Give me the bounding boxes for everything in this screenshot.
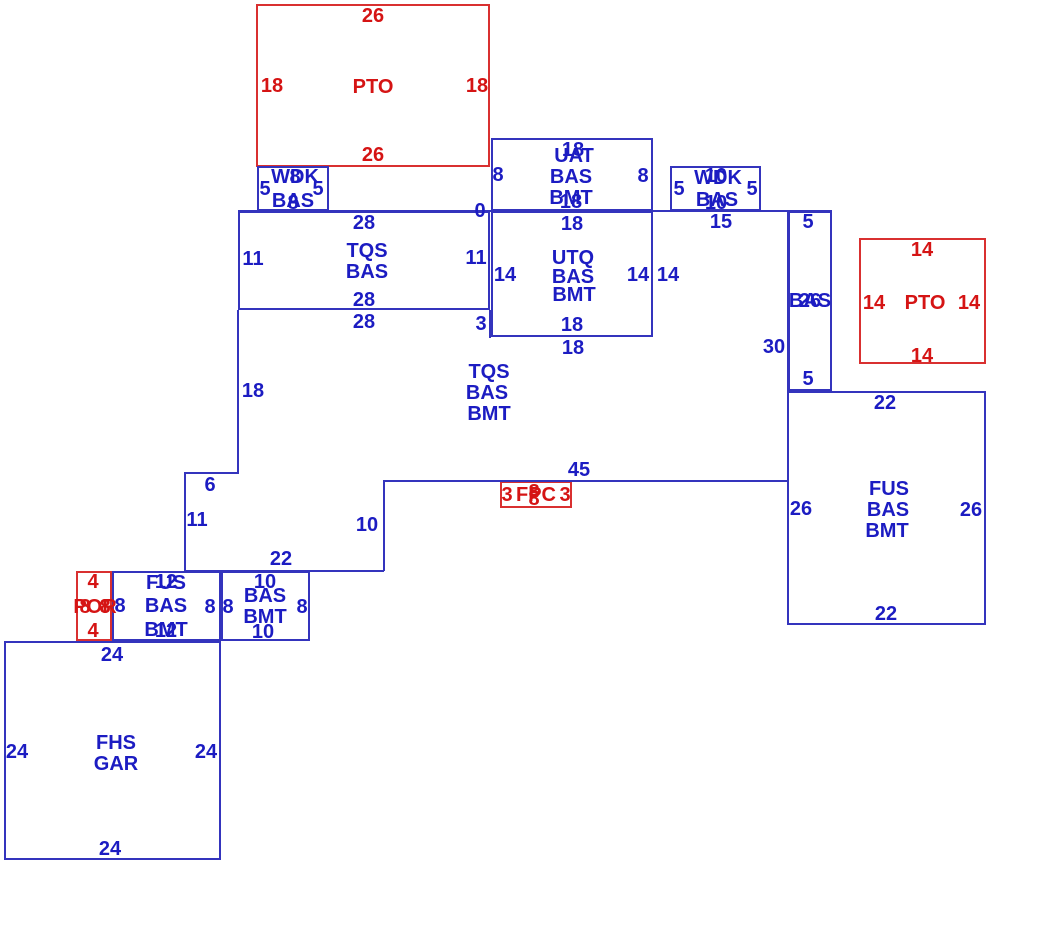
label 4: [87, 572, 98, 592]
label 10: [252, 622, 274, 642]
label 28: [353, 213, 375, 233]
label 24: [195, 742, 217, 762]
label 8: [637, 166, 648, 186]
label 6: [204, 475, 215, 495]
label UTQ: [552, 248, 594, 268]
label 18: [561, 214, 583, 234]
wire TQS-BMT step 6ft: [184, 472, 239, 474]
label 10: [356, 515, 378, 535]
label 0: [474, 201, 485, 221]
label 12: [155, 572, 177, 592]
label 10: [254, 572, 276, 592]
label BMT: [243, 607, 286, 627]
label FHS: [96, 733, 136, 753]
label 3: [475, 314, 486, 334]
label 28: [353, 290, 375, 310]
area UAT outline: [491, 138, 653, 211]
label 24: [101, 645, 123, 665]
label 5: [312, 179, 323, 199]
label BMT: [467, 404, 510, 424]
area TQS outline: [238, 211, 490, 310]
label 11: [242, 249, 263, 269]
label FUS: [146, 573, 186, 593]
label TQS: [468, 362, 509, 382]
label 10: [705, 193, 727, 213]
label 5: [746, 179, 757, 199]
label UAT: [554, 146, 594, 166]
label 5: [673, 179, 684, 199]
label 18: [561, 315, 583, 335]
wire TQS-BMT bottom 45ft: [383, 480, 789, 482]
label BAS: [244, 586, 286, 606]
label POR: [73, 597, 116, 617]
area BAS-strip outline: [788, 211, 832, 391]
deck WDK-2 outline: [670, 166, 761, 211]
label 8: [114, 596, 125, 616]
label BMT: [552, 285, 595, 305]
label 22: [875, 604, 897, 624]
label BAS: [789, 291, 831, 311]
label 14: [911, 346, 933, 366]
label 18: [562, 140, 584, 160]
label 3: [559, 485, 570, 505]
label BAS: [550, 167, 592, 187]
label 8: [287, 193, 298, 213]
label 8: [528, 489, 539, 509]
label 8: [204, 597, 215, 617]
wire TQS-BMT top 15ft: [653, 210, 790, 212]
label BAS: [145, 596, 187, 616]
label TQS: [346, 241, 387, 261]
label 8: [528, 482, 539, 502]
label 15: [710, 212, 732, 232]
area BASBMT outline: [221, 571, 310, 641]
label 12: [155, 621, 177, 641]
label 24: [99, 839, 121, 859]
label 10: [705, 166, 727, 186]
label 11: [186, 510, 207, 530]
porch FPC outline: [500, 481, 572, 508]
deck WDK-1 outline: [257, 166, 329, 211]
wire TQS-BMT right 30ft: [787, 211, 789, 482]
label BAS: [867, 500, 909, 520]
label 18: [562, 338, 584, 358]
patio PTO-2 outline: [859, 238, 986, 364]
label BMT: [144, 620, 187, 640]
label 14: [863, 293, 885, 313]
label 5: [802, 212, 813, 232]
label BAS: [346, 262, 388, 282]
label 14: [657, 265, 679, 285]
wire TQS-BMT bottom 22ft: [184, 570, 384, 572]
patio PTO-1 outline: [256, 4, 490, 167]
label BMT: [865, 521, 908, 541]
label 45: [568, 460, 590, 480]
wire TQS-BMT right step: [489, 310, 491, 338]
label PTO: [353, 77, 394, 97]
wire TQS-BMT step 10ft: [383, 481, 385, 571]
label 8: [79, 597, 90, 617]
label 8: [296, 597, 307, 617]
area UTQ outline: [491, 211, 653, 337]
label 22: [874, 393, 896, 413]
wire baseline y211: [238, 210, 832, 212]
label PTO: [905, 293, 946, 313]
label 26: [362, 145, 384, 165]
label 8: [289, 167, 300, 187]
label FUS: [869, 479, 909, 499]
label 26: [960, 500, 982, 520]
label 14: [958, 293, 980, 313]
label 11: [465, 248, 486, 268]
area FUS-right outline: [787, 391, 986, 625]
label 8: [99, 597, 110, 617]
wire TQS-BMT left 11ft: [184, 472, 186, 570]
label 18: [466, 76, 488, 96]
label 5: [802, 369, 813, 389]
label 30: [763, 337, 785, 357]
label 14: [627, 265, 649, 285]
label 18: [242, 381, 264, 401]
label 14: [494, 265, 516, 285]
label 18: [261, 76, 283, 96]
garage FHS-GAR outline: [4, 641, 221, 860]
label BAS: [696, 190, 738, 210]
label BAS: [552, 267, 594, 287]
label 4: [87, 621, 98, 641]
label 18: [560, 192, 582, 212]
label 24: [6, 742, 28, 762]
label BMT: [549, 188, 592, 208]
label 14: [911, 240, 933, 260]
label 28: [353, 312, 375, 332]
label WDK: [694, 168, 742, 188]
area FUS-small outline: [112, 571, 221, 641]
wire TQS-BMT left 18ft: [237, 310, 239, 473]
label FPC: [516, 485, 556, 505]
label BAS: [466, 383, 508, 403]
label 3: [501, 485, 512, 505]
label 8: [492, 165, 503, 185]
label 26: [362, 6, 384, 26]
label BAS: [272, 191, 314, 211]
label WDK: [271, 167, 319, 187]
label 22: [270, 549, 292, 569]
label 26: [790, 499, 812, 519]
porch POR outline: [76, 571, 112, 641]
label 26: [799, 291, 821, 311]
label GAR: [94, 754, 138, 774]
label 5: [259, 179, 270, 199]
label 8: [222, 597, 233, 617]
